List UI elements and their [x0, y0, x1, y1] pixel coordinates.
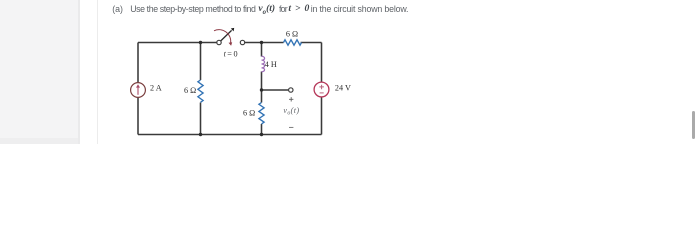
svg-text:= 0: = 0: [227, 50, 237, 59]
svg-text:6 Ω: 6 Ω: [286, 30, 298, 39]
svg-text:6 Ω: 6 Ω: [243, 109, 255, 118]
svg-text:vo(t): vo(t): [283, 106, 299, 117]
svg-text:4 H: 4 H: [265, 60, 277, 69]
svg-text:2 A: 2 A: [150, 84, 162, 93]
svg-text:24 V: 24 V: [335, 83, 351, 92]
svg-text:t: t: [224, 50, 227, 59]
svg-text:6 Ω: 6 Ω: [184, 86, 196, 95]
